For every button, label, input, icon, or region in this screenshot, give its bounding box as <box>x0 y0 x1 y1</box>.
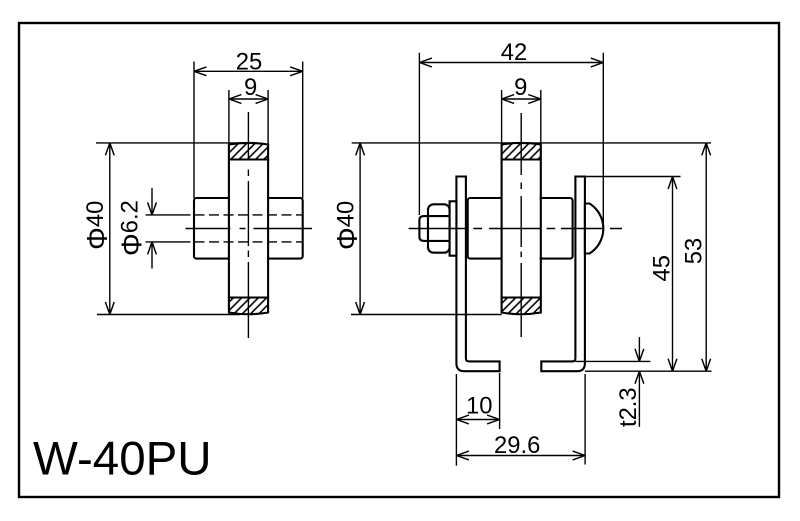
dimension 25 (left view) <box>194 62 303 199</box>
bracket left plate <box>456 177 499 372</box>
svg-text:29.6: 29.6 <box>494 432 540 459</box>
horizontal centerline (right view) <box>409 228 622 230</box>
tire body mask (right view) <box>503 142 540 315</box>
tire upper cross-section hatch (right view) <box>502 143 541 160</box>
tire body mask (left view) <box>230 142 267 315</box>
dimension 53 (right view) <box>585 143 712 371</box>
washer <box>450 201 457 255</box>
wheel hub (left view) <box>194 198 303 259</box>
svg-text:9: 9 <box>514 74 527 101</box>
dimension Φ6.2 (left view) <box>146 188 191 269</box>
dimension Φ40 (left view) <box>96 143 248 315</box>
bracket right plate <box>541 177 585 372</box>
vertical centerline (right view) <box>520 113 522 337</box>
dimension t2.3 flange thickness <box>575 337 650 427</box>
dimension 10 (bracket flange) <box>456 373 499 466</box>
nut <box>428 204 450 252</box>
vertical centerline (left view) <box>247 112 249 338</box>
bore hidden lines Φ6.2 (left view) <box>195 215 303 242</box>
svg-text:45: 45 <box>648 255 675 281</box>
svg-text:9: 9 <box>244 74 257 101</box>
axle dome head <box>585 204 603 254</box>
axle shaft end <box>419 216 428 241</box>
tire lower cross-section hatch (left view) <box>229 298 268 315</box>
tire side walls (right view) <box>502 160 541 298</box>
dimension 42 (right view) <box>419 53 603 226</box>
svg-text:W-40PU: W-40PU <box>33 433 212 486</box>
horizontal centerline (left view) <box>186 228 313 230</box>
tire side walls (left view) <box>229 160 268 298</box>
dimension 9 (right view) <box>502 90 541 145</box>
svg-text:t2.3: t2.3 <box>615 387 642 427</box>
tire upper cross-section hatch (left view) <box>229 143 268 160</box>
tire lower cross-section hatch (right view) <box>502 298 541 315</box>
svg-text:25: 25 <box>236 48 262 75</box>
svg-text:42: 42 <box>501 39 527 66</box>
dimension 29.6 (bracket width) <box>456 374 585 465</box>
dimension Φ40 (right view) <box>351 143 711 315</box>
dimension 45 (right view) <box>575 177 680 372</box>
svg-text:53: 53 <box>681 238 708 264</box>
dimension 9 (left view) <box>229 90 268 145</box>
svg-text:10: 10 <box>466 392 492 419</box>
wheel hub (right view) <box>468 198 573 259</box>
